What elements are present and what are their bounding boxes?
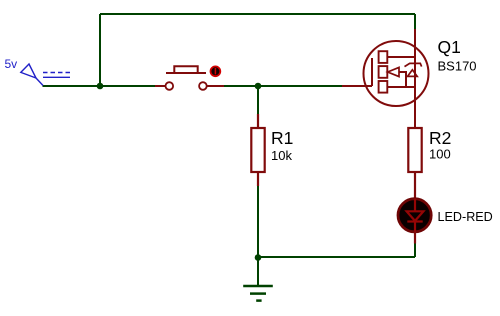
button toggle indicator xyxy=(210,66,222,78)
node B junction dot xyxy=(255,83,262,90)
wire bottom from ground node to LED xyxy=(258,256,415,258)
svg-text:R1: R1 xyxy=(271,128,293,148)
wire from node B down to R1 xyxy=(257,86,259,115)
node A junction dot xyxy=(97,83,104,90)
source connect xyxy=(387,86,415,88)
button (push switch) xyxy=(155,66,224,89)
body diode cathode xyxy=(405,63,422,66)
svg-text:LED-RED: LED-RED xyxy=(438,210,493,224)
node C junction dot (ground node) xyxy=(255,254,262,261)
wire from LED bottom to bottom wire xyxy=(414,243,416,257)
transistor Q1 (BS170 mosfet) xyxy=(342,29,429,128)
channel squares xyxy=(379,51,388,63)
wire from top wire to mosfet drain xyxy=(414,14,416,29)
wire from button to mosfet gate xyxy=(224,85,342,87)
resistor R1 xyxy=(251,114,264,186)
ground xyxy=(243,258,273,301)
gate pin xyxy=(342,85,372,87)
power terminal 5v xyxy=(21,64,70,86)
wire top from node A to drain xyxy=(100,13,415,15)
resistor R2 xyxy=(408,128,421,198)
svg-text:100: 100 xyxy=(429,147,451,162)
substrate arrow xyxy=(388,67,399,76)
svg-text:Q1: Q1 xyxy=(438,37,461,57)
drain-source vertical line xyxy=(414,29,416,128)
wire left vertical from top wire to node A xyxy=(99,14,101,86)
gate bar xyxy=(371,58,373,86)
body diode triangle xyxy=(408,70,418,77)
wire from R1 to ground node xyxy=(257,185,259,258)
svg-text:R2: R2 xyxy=(429,128,451,148)
drain connect xyxy=(387,56,415,58)
svg-text:5v: 5v xyxy=(5,57,18,71)
svg-text:10k: 10k xyxy=(271,148,292,163)
wire from 5v terminal to button xyxy=(43,85,156,87)
LED D1 xyxy=(398,199,431,244)
svg-text:BS170: BS170 xyxy=(438,59,477,74)
